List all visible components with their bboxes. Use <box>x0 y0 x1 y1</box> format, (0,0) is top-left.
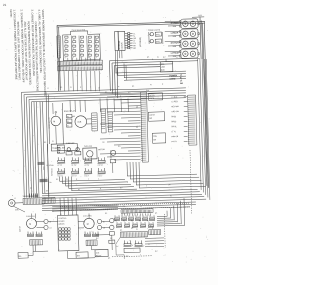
svg-text:L1: L1 <box>180 75 182 77</box>
svg-text:P2: P2 <box>140 206 142 208</box>
svg-text:P10: P10 <box>146 90 149 92</box>
svg-text:BOARD: BOARD <box>58 220 65 223</box>
svg-text:P6: P6 <box>147 220 149 222</box>
svg-text:IND LT: IND LT <box>84 175 89 177</box>
svg-text:CONTROL: CONTROL <box>58 218 66 220</box>
svg-text:P7 CONN: P7 CONN <box>46 165 54 167</box>
svg-text:P6: P6 <box>137 126 139 128</box>
svg-text:OVEN SELECTOR: OVEN SELECTOR <box>71 29 85 31</box>
svg-text:BAKE RELAY: BAKE RELAY <box>64 109 76 112</box>
svg-text:SW: SW <box>77 255 80 257</box>
svg-text:L2: L2 <box>180 80 182 82</box>
svg-text:LT YL: LT YL <box>171 131 176 133</box>
svg-text:L2 RED: L2 RED <box>171 101 178 103</box>
svg-text:(REAR): (REAR) <box>58 222 64 225</box>
svg-text:RF SW: RF SW <box>71 164 76 166</box>
svg-text:NEU WH: NEU WH <box>171 106 179 108</box>
svg-text:CONV FAN: CONV FAN <box>26 215 35 218</box>
svg-text:K3: K3 <box>67 125 69 127</box>
svg-text:(AT REAR): (AT REAR) <box>139 37 142 47</box>
svg-text:OVEN LIGHTS: OVEN LIGHTS <box>148 29 161 31</box>
svg-text:REL: REL <box>18 256 21 258</box>
svg-text:K1: K1 <box>67 116 69 118</box>
svg-text:SW: SW <box>153 139 156 141</box>
svg-text:SW: SW <box>149 118 152 120</box>
svg-text:P1: P1 <box>123 206 125 208</box>
svg-text:21: 21 <box>3 3 7 7</box>
svg-text:P8: P8 <box>49 182 51 184</box>
svg-text:RT.FRONT: RT.FRONT <box>171 42 181 44</box>
svg-text:P7: P7 <box>30 188 32 190</box>
svg-text:L2: L2 <box>98 87 100 89</box>
svg-text:DOOR MOTOR: DOOR MOTOR <box>48 116 50 128</box>
svg-text:HOT LT: HOT LT <box>71 175 76 177</box>
svg-text:LT: LT <box>65 57 67 59</box>
svg-text:DR BL: DR BL <box>171 126 176 128</box>
svg-text:K2: K2 <box>67 121 69 123</box>
svg-text:L1 BLK: L1 BLK <box>171 97 178 99</box>
svg-text:LT: LT <box>95 57 97 59</box>
svg-text:L1: L1 <box>14 198 16 200</box>
svg-text:M: M <box>29 224 31 226</box>
svg-text:LT.FRONT: LT.FRONT <box>171 52 181 54</box>
svg-text:HOT LT: HOT LT <box>57 175 62 177</box>
svg-text:P4: P4 <box>131 220 133 222</box>
svg-text:P2: P2 <box>115 220 117 222</box>
svg-text:LATCH: LATCH <box>149 113 156 116</box>
svg-text:CLOCK: CLOCK <box>121 42 123 50</box>
svg-text:MOTOR: MOTOR <box>19 225 21 232</box>
svg-text:POWER: POWER <box>169 75 177 77</box>
svg-text:FAN OR: FAN OR <box>171 135 178 138</box>
svg-text:M: M <box>53 121 55 123</box>
svg-text:IND LT: IND LT <box>98 175 103 177</box>
svg-text:GRD GN: GRD GN <box>171 111 179 113</box>
svg-text:R: R <box>73 57 74 59</box>
svg-text:SU: SU <box>88 57 90 59</box>
svg-text:LF SW: LF SW <box>57 164 62 166</box>
svg-text:LOCK: LOCK <box>149 98 155 100</box>
svg-text:SW1: SW1 <box>156 34 160 36</box>
svg-text:SW2: SW2 <box>156 41 160 43</box>
svg-text:T: T <box>140 255 141 257</box>
svg-text:P4 GY: P4 GY <box>171 141 177 143</box>
svg-text:LR SW: LR SW <box>84 164 89 166</box>
svg-text:DOOR: DOOR <box>149 95 155 97</box>
svg-text:MOTOR: MOTOR <box>98 149 105 151</box>
svg-text:COOL FAN: COOL FAN <box>83 214 92 217</box>
svg-text:RR SW: RR SW <box>98 164 104 166</box>
svg-text:T: T <box>98 179 99 181</box>
svg-text:RT.REAR: RT.REAR <box>171 21 180 24</box>
svg-text:BR(2): BR(2) <box>171 121 176 123</box>
svg-text:SURF UNIT: SURF UNIT <box>66 143 75 145</box>
svg-text:M: M <box>87 224 89 226</box>
svg-text:LT.REAR: LT.REAR <box>171 31 179 34</box>
svg-text:P3: P3 <box>123 220 125 222</box>
svg-text:RELAY: RELAY <box>96 254 102 257</box>
svg-text:L1: L1 <box>47 88 49 90</box>
svg-text:CORD: CORD <box>169 78 175 80</box>
svg-text:P5: P5 <box>139 220 141 222</box>
svg-text:MODULE: MODULE <box>119 40 121 50</box>
svg-text:BK(2): BK(2) <box>171 116 176 118</box>
svg-text:P5: P5 <box>137 106 139 108</box>
